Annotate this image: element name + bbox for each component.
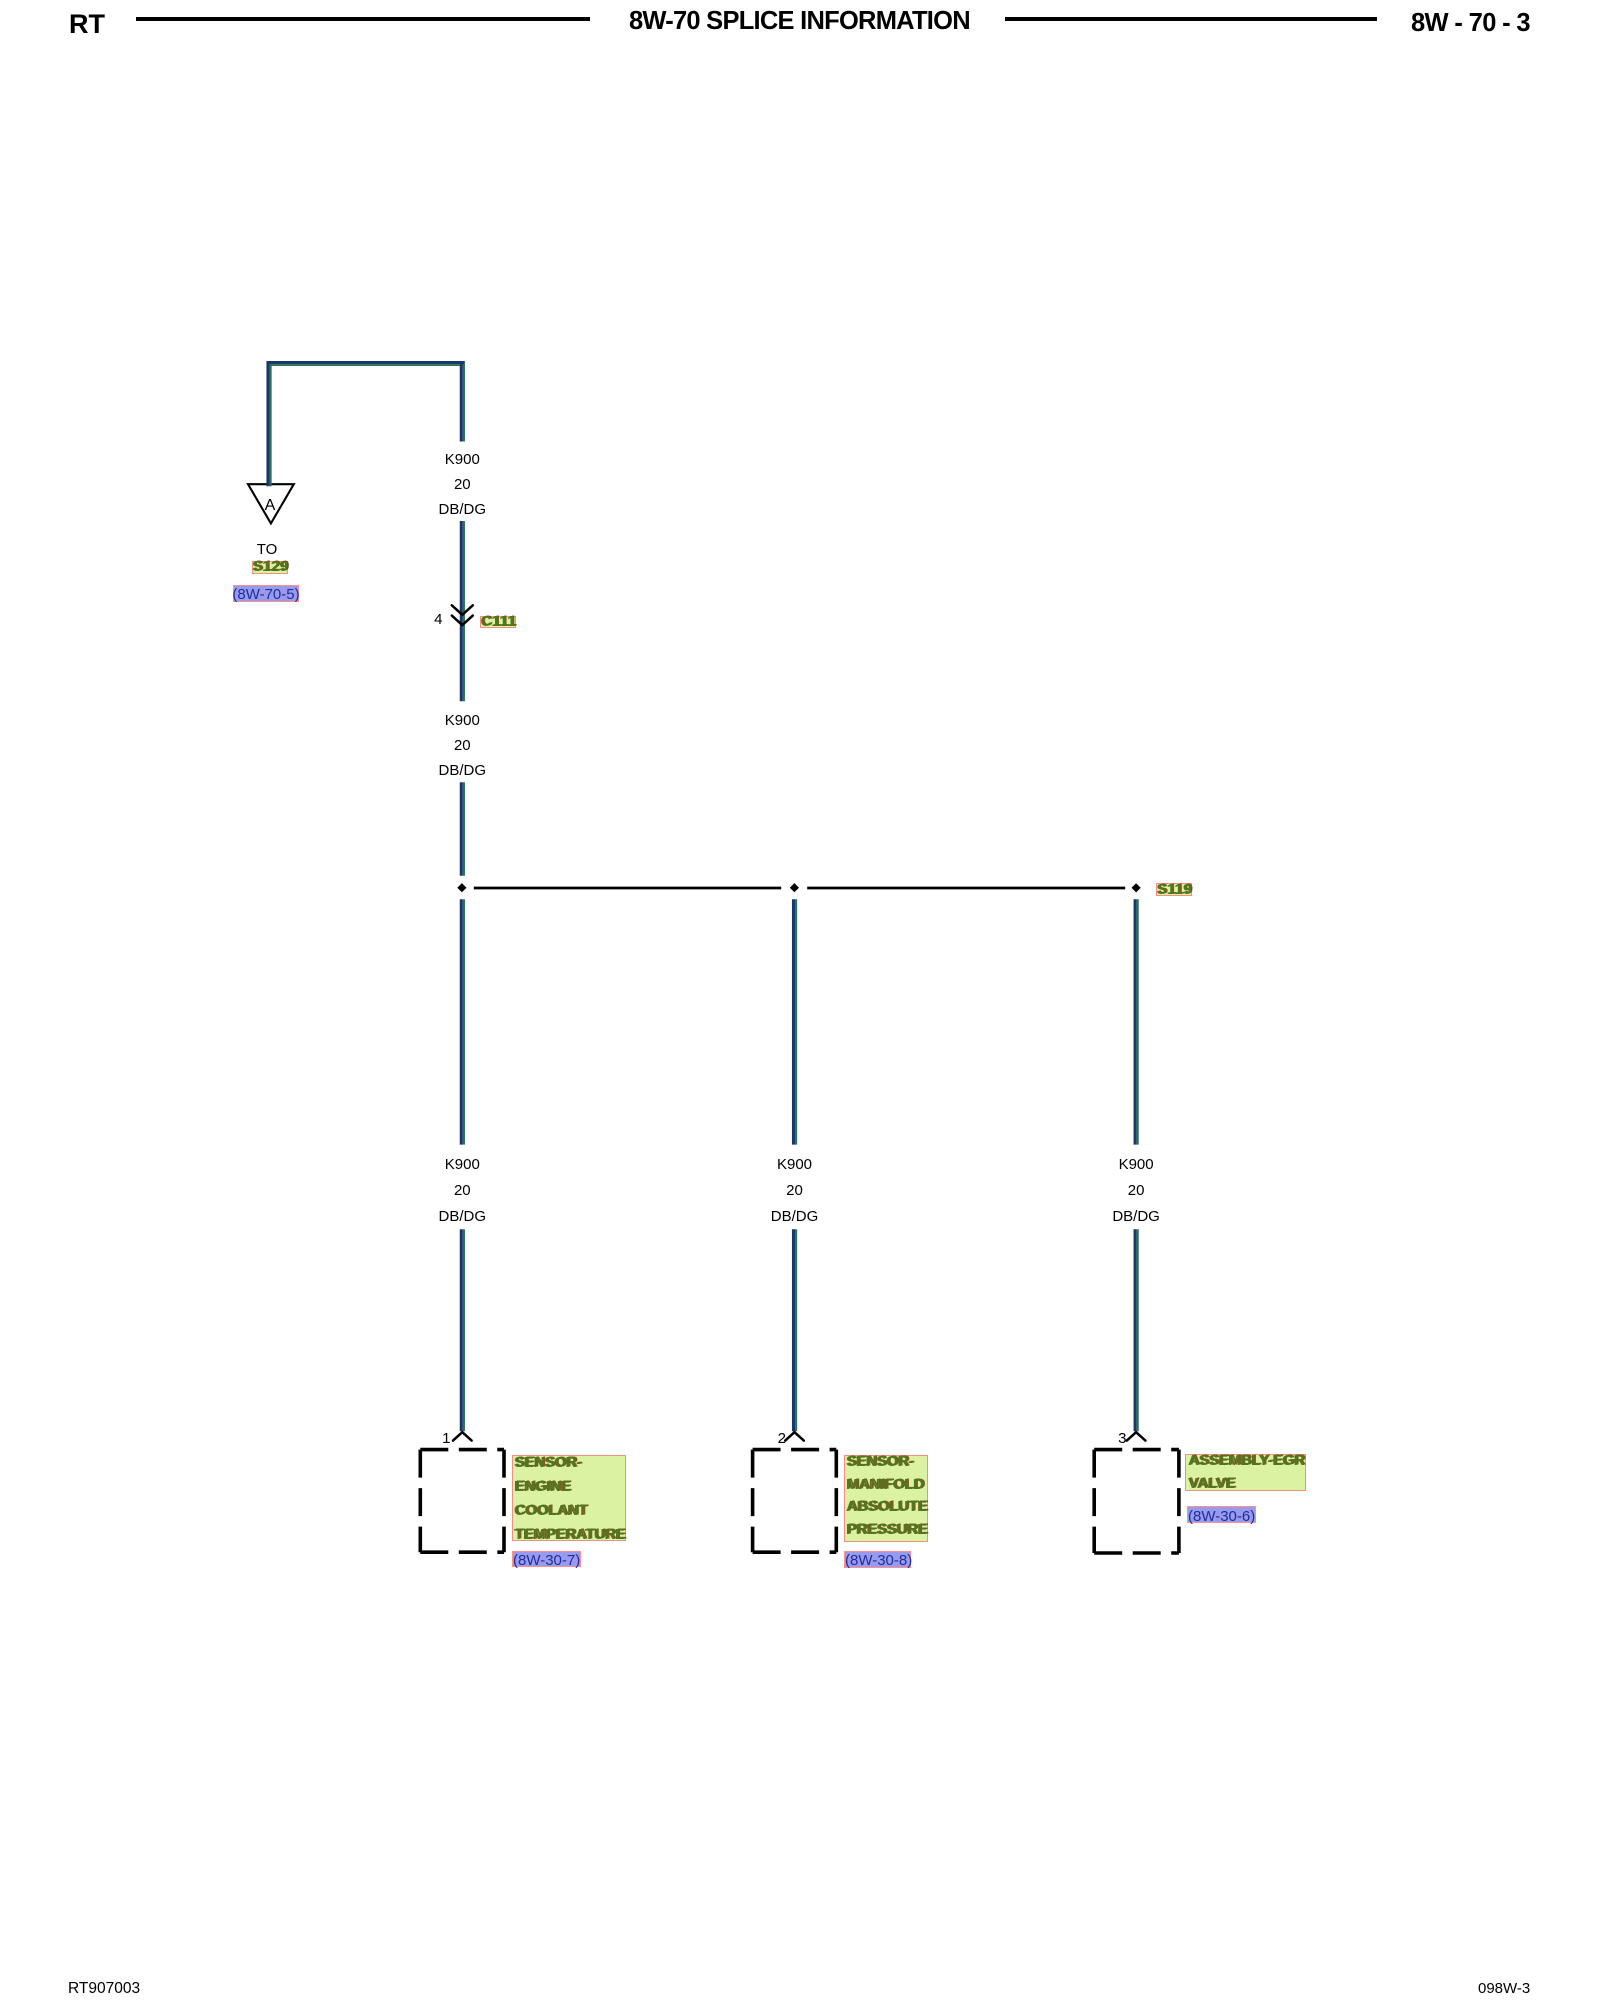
wire: branch 3 label to pin 3 — [1135, 1229, 1138, 1431]
splice ref S129 highlight — [252, 561, 288, 574]
splice node diamond 2 — [790, 883, 799, 892]
connector C111 double chevron — [452, 605, 473, 625]
footer page code — [1478, 1981, 1530, 1996]
connector ref C111 text — [477, 615, 519, 629]
wire label K900 middle — [402, 708, 522, 783]
header rule left — [136, 17, 590, 21]
connector ref C111 highlight — [480, 616, 516, 629]
component label: EGR valve assembly text — [1188, 1450, 1304, 1495]
component box: manifold absolute pressure sensor — [753, 1450, 837, 1553]
wire: branch 2 label to pin 2 — [794, 1229, 797, 1431]
wire label K900 branch 3 — [1076, 1152, 1196, 1230]
page ref (8W-30-6) highlight — [1187, 1506, 1256, 1524]
splice node diamond 1 — [457, 883, 466, 892]
wire: branch 1 splice to label — [461, 899, 464, 1144]
splice ref S129 text — [249, 560, 291, 574]
component label: sensor engine coolant temperature highlight — [512, 1455, 627, 1541]
wire label K900 upper — [402, 447, 522, 522]
wire: K900 segment above C111 — [461, 361, 464, 442]
page ref (8W-30-7) highlight — [512, 1551, 581, 1567]
pin 3 number — [1097, 1431, 1127, 1446]
off-page connector triangle A — [248, 484, 294, 523]
wire: left drop to off-page connector A — [268, 361, 271, 486]
footer sheet code — [68, 1981, 140, 1997]
component label: EGR valve assembly highlight — [1185, 1454, 1306, 1492]
pin 1 terminal fork — [453, 1432, 472, 1440]
wire: branch 3 splice to label — [1135, 899, 1138, 1144]
wire: top horizontal K900 run — [267, 363, 465, 366]
component label: sensor engine coolant temperature text — [514, 1451, 625, 1547]
wire label K900 branch 2 — [735, 1152, 855, 1230]
component label: sensor manifold absolute pressure text — [846, 1451, 927, 1541]
page ref (8W-70-5) text — [230, 587, 302, 602]
splice node diamond 3 — [1132, 883, 1141, 892]
wire: branch 1 label to pin 1 — [461, 1229, 464, 1431]
splice ref S119 text — [1153, 883, 1195, 897]
pin 3 terminal fork — [1127, 1432, 1146, 1440]
header page number — [1411, 11, 1530, 37]
pin 2 terminal fork — [785, 1432, 804, 1440]
wire: branch 2 splice to label — [794, 899, 797, 1144]
header rule right — [1005, 17, 1377, 21]
page ref (8W-30-8) highlight — [844, 1551, 911, 1568]
pin 2 number — [756, 1431, 786, 1446]
splice ref S119 highlight — [1156, 883, 1192, 895]
splice S119 bus right segment — [807, 887, 1125, 890]
component box: engine coolant temperature sensor — [420, 1450, 504, 1553]
label TO — [227, 542, 307, 557]
page ref (8W-30-8) text — [845, 1553, 912, 1568]
component label: sensor manifold absolute pressure highlight — [844, 1455, 928, 1542]
header page id RT — [69, 11, 105, 38]
page ref (8W-30-7) text — [513, 1553, 580, 1568]
pin 1 number — [421, 1431, 451, 1446]
wire label K900 branch 1 — [402, 1152, 522, 1230]
wire: K900 segment below C111 labels to splice — [461, 782, 464, 876]
label A inside triangle — [250, 498, 290, 514]
header title — [629, 9, 970, 35]
pin 4 number — [413, 612, 443, 627]
splice S119 bus left segment — [474, 887, 781, 890]
component box: EGR valve assembly — [1094, 1450, 1179, 1553]
page ref (8W-30-6) text — [1188, 1509, 1255, 1524]
page ref (8W-70-5) highlight — [233, 585, 300, 602]
wire: K900 segment through C111 — [461, 521, 464, 701]
